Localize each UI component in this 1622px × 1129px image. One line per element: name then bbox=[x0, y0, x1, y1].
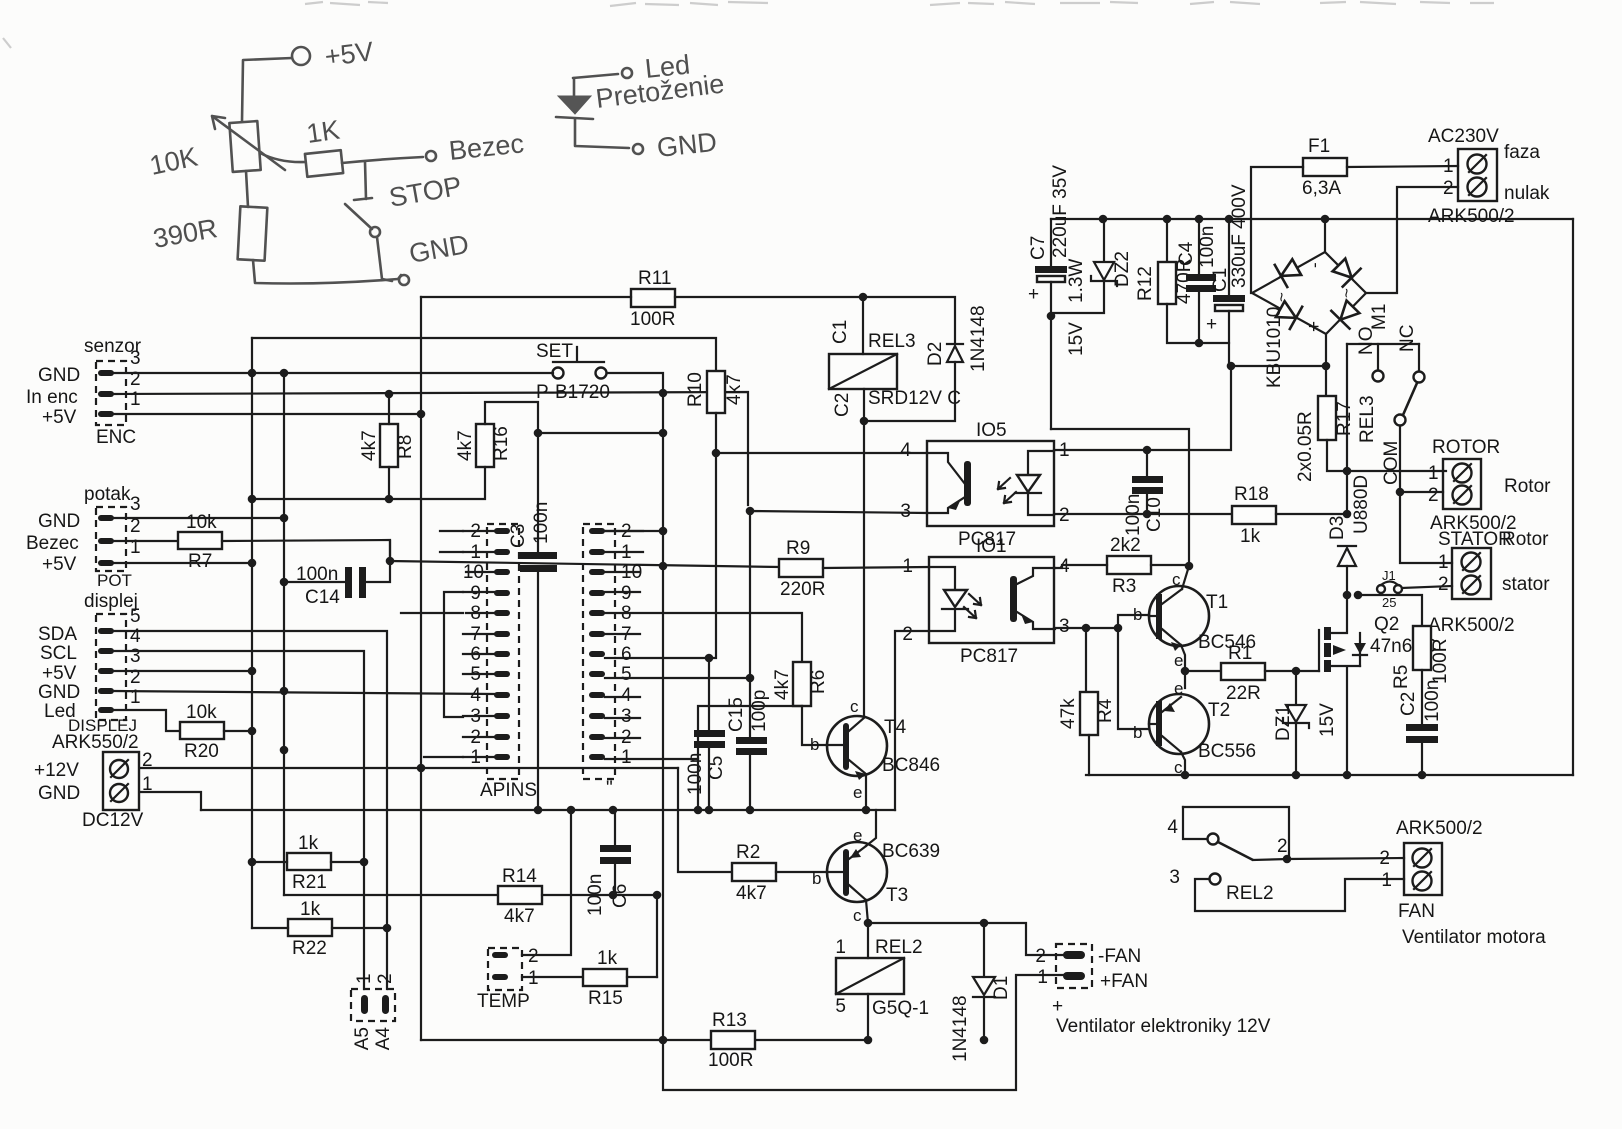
svg-text:D1: D1 bbox=[991, 976, 1012, 1000]
svg-text:T4: T4 bbox=[884, 717, 907, 738]
wire LED to GND (hand) bbox=[575, 119, 629, 148]
diode D3 U880D bbox=[1327, 475, 1372, 595]
svg-text:+: + bbox=[1052, 996, 1063, 1017]
wire R13 row bbox=[421, 1039, 868, 1041]
svg-text:4: 4 bbox=[900, 440, 911, 461]
svg-text:100R: 100R bbox=[1430, 639, 1451, 684]
mosfet Q2 47n60C bbox=[1319, 595, 1437, 775]
wire ENC pin3 GND row to SET left bbox=[114, 372, 553, 374]
svg-text:6: 6 bbox=[621, 644, 632, 665]
svg-text:4: 4 bbox=[470, 685, 481, 706]
wire R3 left to IO1 pin4 bbox=[1054, 565, 1107, 568]
wire DISPLEJ +5V row to bus A bbox=[114, 670, 252, 672]
resistor R21 1k bbox=[287, 833, 331, 893]
svg-text:4k7: 4k7 bbox=[504, 906, 535, 927]
wire R16 top to x538 bbox=[485, 402, 538, 552]
svg-text:potak: potak bbox=[84, 484, 131, 505]
svg-text:2: 2 bbox=[1035, 946, 1046, 967]
svg-text:c: c bbox=[850, 697, 859, 716]
svg-text:R11: R11 bbox=[638, 268, 671, 289]
svg-text:REL2: REL2 bbox=[875, 937, 923, 958]
wire R20 to bus A bbox=[224, 730, 252, 732]
wire pot bottom to 390R (hand) bbox=[246, 171, 248, 207]
svg-text:DZ2: DZ2 bbox=[1112, 251, 1133, 287]
wire R6 bottom to T4 base bbox=[802, 706, 827, 745]
svg-text:REL3: REL3 bbox=[868, 331, 916, 352]
svg-text:stator: stator bbox=[1502, 574, 1550, 595]
node Led (hand) bbox=[622, 49, 691, 84]
wire hand +5V to potentiometer bbox=[242, 58, 292, 121]
capacitor C15 100p bbox=[726, 690, 770, 755]
svg-text:R2: R2 bbox=[736, 842, 760, 863]
wire ENC pin2 In-enc row bbox=[114, 392, 748, 505]
wire C15 leads bbox=[749, 678, 751, 810]
svg-text:ENC: ENC bbox=[96, 427, 136, 448]
svg-text:e: e bbox=[1174, 679, 1183, 698]
optocoupler IO1 PC817 bbox=[902, 536, 1070, 667]
svg-text:R9: R9 bbox=[786, 538, 810, 559]
resistor R17 2x0.05R bbox=[1295, 396, 1446, 482]
wire R2 right to T3 base bbox=[776, 871, 843, 873]
wire APINS rows2/1 top stubs bbox=[440, 531, 463, 552]
svg-text:Rotor: Rotor bbox=[1504, 476, 1551, 497]
wire C1 node to IO5 pin1 bbox=[1054, 366, 1231, 450]
svg-text:SRD12V C: SRD12V C bbox=[868, 388, 961, 409]
svg-text:b: b bbox=[812, 869, 821, 888]
connector FAN header (elektronika) bbox=[1035, 944, 1270, 1037]
svg-text:1: 1 bbox=[1443, 156, 1454, 177]
wire J1 node to STATOR pin2 bbox=[1402, 586, 1452, 588]
wire DC12V GND row to rail bbox=[140, 792, 201, 810]
wire IO5 pin2 row to R18 bbox=[1054, 513, 1232, 515]
svg-text:R22: R22 bbox=[292, 938, 327, 959]
svg-text:TEMP: TEMP bbox=[477, 991, 530, 1012]
svg-text:G5Q-1: G5Q-1 bbox=[872, 998, 929, 1019]
svg-text:4k7: 4k7 bbox=[772, 669, 793, 700]
wire potak pin3 GND row bbox=[114, 517, 284, 519]
wire R15 right bbox=[627, 976, 657, 978]
svg-text:+5V: +5V bbox=[42, 554, 77, 575]
svg-text:+: + bbox=[1028, 284, 1039, 305]
svg-text:M1: M1 bbox=[1369, 304, 1390, 330]
resistor R10 4k7 bbox=[685, 371, 745, 413]
resistor R22 1k bbox=[288, 899, 332, 959]
svg-text:D3: D3 bbox=[1327, 516, 1348, 540]
wire C5 leads bbox=[708, 658, 710, 810]
wire TEMP pin1 to R15 bbox=[522, 976, 583, 978]
wire pot wiper to 1K (hand) bbox=[260, 153, 305, 162]
svg-text:R12: R12 bbox=[1135, 266, 1156, 301]
svg-text:4: 4 bbox=[1167, 817, 1178, 838]
LED Pretozenie (hand) bbox=[556, 68, 726, 119]
wire bottom rail y775 bbox=[1086, 774, 1573, 776]
wire R14 right to R15 node bbox=[542, 895, 657, 977]
svg-text:1: 1 bbox=[528, 968, 539, 989]
svg-text:R14: R14 bbox=[502, 866, 537, 887]
svg-text:1: 1 bbox=[354, 973, 375, 984]
svg-text:IO5: IO5 bbox=[976, 420, 1007, 441]
svg-text:GND: GND bbox=[38, 783, 80, 804]
wire R3 right to T1 collector node bbox=[1151, 564, 1189, 566]
resistor R16 4k7 bbox=[455, 424, 512, 467]
bus x421 vertical bbox=[420, 297, 422, 1040]
resistor R5 100R bbox=[1391, 626, 1451, 724]
resistor R4 47k bbox=[1058, 628, 1116, 775]
svg-text:R7: R7 bbox=[188, 551, 212, 572]
resistor R2 4k7 bbox=[732, 842, 776, 904]
svg-text:15V: 15V bbox=[1317, 703, 1338, 737]
svg-text:2: 2 bbox=[1428, 485, 1439, 506]
svg-text:220R: 220R bbox=[780, 579, 825, 600]
svg-text:1: 1 bbox=[1438, 552, 1449, 573]
svg-text:1k: 1k bbox=[1240, 526, 1261, 547]
svg-text:ROTOR: ROTOR bbox=[1432, 437, 1500, 458]
capacitor C10 100n bbox=[1123, 450, 1165, 536]
svg-text:220uF 35V: 220uF 35V bbox=[1050, 165, 1071, 258]
svg-text:+5V: +5V bbox=[323, 36, 375, 72]
resistor R13 100R bbox=[708, 1010, 755, 1071]
svg-text:3: 3 bbox=[130, 348, 141, 369]
svg-text:1: 1 bbox=[130, 389, 141, 410]
wire bus top to R10 bbox=[252, 338, 716, 371]
svg-text:Ventilator elektroniky 12V: Ventilator elektroniky 12V bbox=[1056, 1016, 1271, 1037]
svg-text:4k7: 4k7 bbox=[359, 430, 380, 461]
svg-text:100n: 100n bbox=[585, 874, 606, 916]
wire R11 right to D2/REL3 bbox=[675, 297, 955, 344]
wire bottom loop to FAN pin1 bbox=[663, 975, 1064, 1090]
svg-text:4k7: 4k7 bbox=[736, 883, 767, 904]
svg-text:+FAN: +FAN bbox=[1100, 971, 1148, 992]
wire DISPLEJ SDA row to A4 line bbox=[114, 631, 387, 989]
svg-text:COM: COM bbox=[1381, 441, 1402, 485]
wire C3 bottom down to rail bbox=[537, 572, 539, 810]
wire DISPLEJ Led row to R20 bbox=[114, 710, 180, 731]
wire REL3 C2 down to T4 collector bbox=[863, 389, 865, 717]
svg-text:c: c bbox=[1172, 570, 1181, 589]
svg-text:6,3A: 6,3A bbox=[1302, 178, 1341, 199]
svg-text:25: 25 bbox=[1382, 595, 1396, 610]
wire ground rail y810 bbox=[201, 809, 895, 811]
wire R1 right to gate bbox=[1265, 670, 1319, 672]
wire T1/T2 emitters to R1 bbox=[1181, 645, 1221, 688]
capacitor C2 100n bbox=[1398, 680, 1443, 775]
wire R8 leads bbox=[388, 394, 390, 499]
svg-text:ARK500/2: ARK500/2 bbox=[1428, 206, 1515, 227]
wire APINS row8 stub bbox=[401, 612, 463, 614]
node GND (hand, led) bbox=[633, 127, 718, 163]
svg-text:15V: 15V bbox=[1066, 322, 1087, 356]
svg-text:e: e bbox=[853, 826, 862, 845]
transistor T4 BC846 bbox=[810, 697, 940, 802]
svg-text:2: 2 bbox=[1277, 836, 1288, 857]
connector A5 A4 bbox=[351, 973, 396, 1050]
svg-text:~: ~ bbox=[1337, 288, 1356, 298]
svg-text:1: 1 bbox=[621, 747, 632, 768]
svg-text:+5V: +5V bbox=[42, 407, 77, 428]
node GND (hand) bbox=[399, 229, 471, 285]
connector DC12V ARK550/2 bbox=[34, 732, 153, 831]
svg-text:b: b bbox=[810, 735, 819, 754]
svg-text:1K: 1K bbox=[305, 115, 342, 149]
wire ENC pin1 +5V row bbox=[114, 413, 421, 415]
svg-text:In enc: In enc bbox=[26, 387, 78, 408]
connector ROTOR ARK500/2 bbox=[1428, 437, 1551, 534]
svg-text:IO1: IO1 bbox=[976, 536, 1007, 557]
connector APINS bbox=[463, 521, 537, 801]
wire rail x698 to R6 bottom bbox=[698, 706, 802, 810]
resistor R3 2k2 bbox=[1107, 535, 1151, 597]
svg-text:5: 5 bbox=[130, 606, 141, 627]
wire REL2 coil leads bbox=[867, 923, 869, 1040]
wire x538 to bus x663 bbox=[538, 432, 663, 434]
wire T3 collector node bbox=[866, 900, 1064, 955]
resistor R7 10k bbox=[178, 512, 222, 572]
transistor T3 BC639 bbox=[812, 826, 940, 925]
wire DPINS row8 to R6 top bbox=[605, 613, 802, 662]
svg-text:C14: C14 bbox=[305, 587, 340, 608]
svg-text:1k: 1k bbox=[298, 833, 319, 854]
svg-text:C4: C4 bbox=[1176, 241, 1197, 266]
svg-text:3: 3 bbox=[900, 501, 911, 522]
svg-text:GND: GND bbox=[38, 511, 80, 532]
wire R21 leads bbox=[252, 861, 364, 863]
button SET P-B1720 bbox=[536, 341, 610, 403]
LED sketch: wire to Led terminal (hand) bbox=[573, 74, 618, 78]
svg-text:REL2: REL2 bbox=[1226, 883, 1274, 904]
bridge rectifier KBU1010 bbox=[1252, 219, 1366, 396]
wire R22 leads bbox=[252, 927, 387, 929]
svg-text:100p: 100p bbox=[749, 690, 770, 732]
svg-text:~: ~ bbox=[1272, 292, 1291, 302]
svg-text:1k: 1k bbox=[300, 899, 321, 920]
wire SET right to bus x663 bbox=[607, 373, 663, 1040]
capacitor C14 100n bbox=[296, 564, 366, 608]
relay REL3 SRD12V bbox=[829, 320, 961, 417]
svg-text:100n: 100n bbox=[531, 502, 552, 544]
resistor R14 4k7 bbox=[498, 866, 542, 927]
wire R7 to Bezec node bbox=[222, 540, 390, 561]
svg-text:PC817: PC817 bbox=[960, 646, 1018, 667]
wire base link T1/T2 bbox=[1118, 615, 1149, 729]
switch REL2 (motor contact) bbox=[1167, 807, 1289, 904]
switch STOP (hand) bbox=[345, 162, 464, 237]
svg-text:REL3: REL3 bbox=[1357, 395, 1378, 443]
wire DISPLEJ GND row to APINS pin4 bbox=[114, 691, 494, 694]
svg-text:4k7: 4k7 bbox=[724, 374, 745, 405]
svg-text:1: 1 bbox=[1381, 870, 1392, 891]
wire DPINS row5 to C15 node bbox=[605, 677, 750, 679]
svg-text:R17: R17 bbox=[1334, 401, 1355, 436]
wire DISPLEJ SCL row to A5 line bbox=[114, 651, 364, 989]
svg-text:2: 2 bbox=[902, 624, 913, 645]
zener DZ1 15V bbox=[1273, 671, 1338, 775]
svg-text:KBU1010: KBU1010 bbox=[1264, 307, 1285, 388]
svg-text:D2: D2 bbox=[925, 342, 946, 366]
wire COM node to ROTOR pin2 bbox=[1400, 491, 1443, 493]
wire potak pin2 Bezec to R7 bbox=[114, 540, 178, 542]
connector POT (potak) bbox=[26, 484, 141, 590]
svg-text:1: 1 bbox=[835, 937, 846, 958]
diode D1 1N4148 bbox=[950, 923, 1012, 1062]
svg-text:P-B1720: P-B1720 bbox=[536, 382, 610, 403]
resistor R20 10k bbox=[180, 702, 224, 762]
svg-text:2: 2 bbox=[375, 973, 396, 984]
wire T3 emitter to rail end bbox=[866, 810, 876, 846]
svg-text:9: 9 bbox=[621, 583, 632, 604]
wire R10 bottom down to row6 bbox=[615, 413, 716, 658]
resistor R6 4k7 bbox=[772, 662, 829, 706]
svg-text:1k: 1k bbox=[597, 948, 618, 969]
svg-text:2x0.05R: 2x0.05R bbox=[1295, 411, 1316, 482]
svg-text:2: 2 bbox=[130, 516, 141, 537]
svg-text:POT: POT bbox=[97, 571, 132, 590]
svg-text:R6: R6 bbox=[808, 670, 829, 694]
svg-text:100n: 100n bbox=[685, 753, 706, 795]
svg-text:NC: NC bbox=[1397, 325, 1418, 352]
svg-text:2: 2 bbox=[528, 946, 539, 967]
resistor R11 100R bbox=[630, 268, 675, 330]
node Bezec (hand) bbox=[426, 128, 525, 166]
wire C14 right to Bezec node bbox=[366, 541, 390, 582]
svg-text:330uF 400V: 330uF 400V bbox=[1229, 184, 1250, 288]
wire right edge vertical bbox=[1572, 219, 1574, 775]
svg-text:+5V: +5V bbox=[42, 663, 77, 684]
svg-text:R8: R8 bbox=[395, 435, 416, 459]
wire R18 right to D3 bbox=[1276, 513, 1347, 515]
svg-text:R1: R1 bbox=[1228, 643, 1252, 664]
svg-text:faza: faza bbox=[1504, 142, 1540, 163]
wire R10 node to IO5 pin4 bbox=[716, 452, 927, 454]
wire DC12V +12V row to R2 bbox=[140, 767, 678, 769]
wire APINS row1 to bus x421 bbox=[424, 756, 463, 758]
resistor R18 1k bbox=[1232, 484, 1276, 547]
svg-text:C15: C15 bbox=[726, 697, 747, 732]
wire M1 rail down to D3 node bbox=[1346, 344, 1348, 514]
svg-text:A5: A5 bbox=[352, 1027, 373, 1050]
svg-text:T3: T3 bbox=[886, 885, 908, 906]
wire TEMP pin2 up to rail bbox=[522, 810, 571, 955]
svg-text:1: 1 bbox=[1428, 463, 1439, 484]
svg-text:+: + bbox=[1304, 321, 1325, 332]
diode D2 1N4148 bbox=[864, 305, 989, 421]
resistor R9 220R bbox=[779, 538, 825, 600]
faint cropped scan text at top edge bbox=[3, 2, 1494, 48]
svg-text:DZ1: DZ1 bbox=[1273, 705, 1294, 741]
svg-text:C1: C1 bbox=[1210, 268, 1231, 292]
wire bus B to R14 row bbox=[284, 894, 498, 896]
svg-text:R20: R20 bbox=[184, 741, 219, 762]
svg-text:J1: J1 bbox=[1382, 568, 1396, 583]
potentiometer 10K (hand) bbox=[147, 116, 285, 181]
svg-text:R4: R4 bbox=[1095, 698, 1116, 723]
capacitor C7 220uF 35V bbox=[1028, 165, 1071, 429]
switch M1 REL3 bbox=[1347, 304, 1425, 485]
svg-text:2: 2 bbox=[1059, 505, 1070, 526]
svg-text:Ventilator motora: Ventilator motora bbox=[1402, 927, 1546, 948]
svg-text:BC556: BC556 bbox=[1198, 741, 1256, 762]
svg-text:R10: R10 bbox=[685, 372, 706, 407]
svg-text:3: 3 bbox=[1169, 867, 1180, 888]
svg-text:R21: R21 bbox=[292, 872, 327, 893]
svg-text:Q2: Q2 bbox=[1374, 614, 1399, 635]
capacitor C5 100n bbox=[685, 730, 727, 795]
svg-text:AC230V: AC230V bbox=[1428, 126, 1499, 147]
fuse F1 6,3A bbox=[1251, 136, 1458, 293]
svg-text:2: 2 bbox=[1438, 574, 1449, 595]
resistor 390R (hand) bbox=[151, 206, 268, 260]
svg-text:100n: 100n bbox=[1422, 680, 1443, 722]
svg-text:e: e bbox=[1174, 651, 1183, 670]
connector AC230V ARK500/2 bbox=[1428, 126, 1550, 227]
svg-text:ARK550/2: ARK550/2 bbox=[52, 732, 139, 753]
wire IO1 pin3 to bases and R4 bbox=[1054, 627, 1118, 629]
wire APINS row9-row3 link bbox=[444, 592, 463, 717]
svg-text:4: 4 bbox=[1059, 556, 1070, 577]
optocoupler IO5 PC817 bbox=[900, 420, 1069, 550]
svg-text:100R: 100R bbox=[708, 1050, 753, 1071]
resistor R15 1k bbox=[583, 948, 627, 1009]
svg-text:9: 9 bbox=[470, 583, 481, 604]
wire DPINS row1 to rail x698 bbox=[605, 758, 698, 760]
svg-text:e: e bbox=[853, 783, 862, 802]
wire T1 collector vertical from C7 bus bbox=[1051, 429, 1189, 589]
node +5V (hand) bbox=[292, 36, 375, 72]
svg-text:1N4148: 1N4148 bbox=[950, 995, 971, 1062]
capacitor C1 330uF 400V bbox=[1206, 184, 1326, 366]
svg-text:22R: 22R bbox=[1226, 683, 1261, 704]
svg-text:5: 5 bbox=[835, 996, 846, 1017]
svg-text:C2: C2 bbox=[832, 393, 853, 417]
svg-text:SCL: SCL bbox=[40, 643, 77, 664]
wire R11 left to bus x421 bbox=[421, 296, 631, 298]
svg-text:FAN: FAN bbox=[1398, 901, 1435, 922]
svg-text:T1: T1 bbox=[1206, 592, 1228, 613]
wire REL3 C1 up bbox=[862, 297, 864, 354]
svg-text:-: - bbox=[1305, 262, 1324, 268]
svg-text:": " bbox=[606, 778, 613, 799]
svg-text:A4: A4 bbox=[373, 1027, 394, 1051]
svg-text:ARK500/2: ARK500/2 bbox=[1428, 615, 1515, 636]
svg-text:U880D: U880D bbox=[1351, 475, 1372, 534]
wire DPINS row6 link bbox=[605, 657, 615, 659]
wire top DC rail y219 bbox=[1051, 218, 1573, 220]
svg-text:5: 5 bbox=[621, 664, 632, 685]
relay REL2 G5Q-1 bbox=[835, 937, 929, 1019]
svg-text:1: 1 bbox=[1037, 967, 1048, 988]
wire IO1 pin2 down bbox=[895, 631, 929, 810]
svg-text:BC639: BC639 bbox=[882, 841, 940, 862]
connector TEMP bbox=[477, 946, 539, 1012]
wire 390R to GND node (hand) bbox=[253, 260, 401, 284]
jumper J1 bbox=[1358, 568, 1422, 626]
wire R2 row bbox=[678, 768, 732, 872]
wire C6 leads bbox=[614, 810, 616, 895]
svg-text:R3: R3 bbox=[1112, 576, 1136, 597]
capacitor C3 100n bbox=[508, 502, 557, 572]
resistor R8 4k7 bbox=[359, 424, 416, 467]
wire potak pin1 +5V row bbox=[114, 562, 252, 564]
zener DZ2 15V 1.3W bbox=[1051, 219, 1133, 356]
svg-text:C7: C7 bbox=[1028, 236, 1049, 260]
svg-text:100R: 100R bbox=[630, 309, 675, 330]
wire IO5 pin3 to C15 node bbox=[750, 511, 927, 678]
capacitor C6 100n bbox=[585, 845, 631, 916]
connector STATOR ARK500/2 bbox=[1428, 529, 1550, 636]
svg-text:GND: GND bbox=[38, 682, 80, 703]
svg-text:c: c bbox=[853, 906, 862, 925]
svg-text:F1: F1 bbox=[1308, 136, 1330, 157]
svg-text:4: 4 bbox=[130, 626, 141, 647]
